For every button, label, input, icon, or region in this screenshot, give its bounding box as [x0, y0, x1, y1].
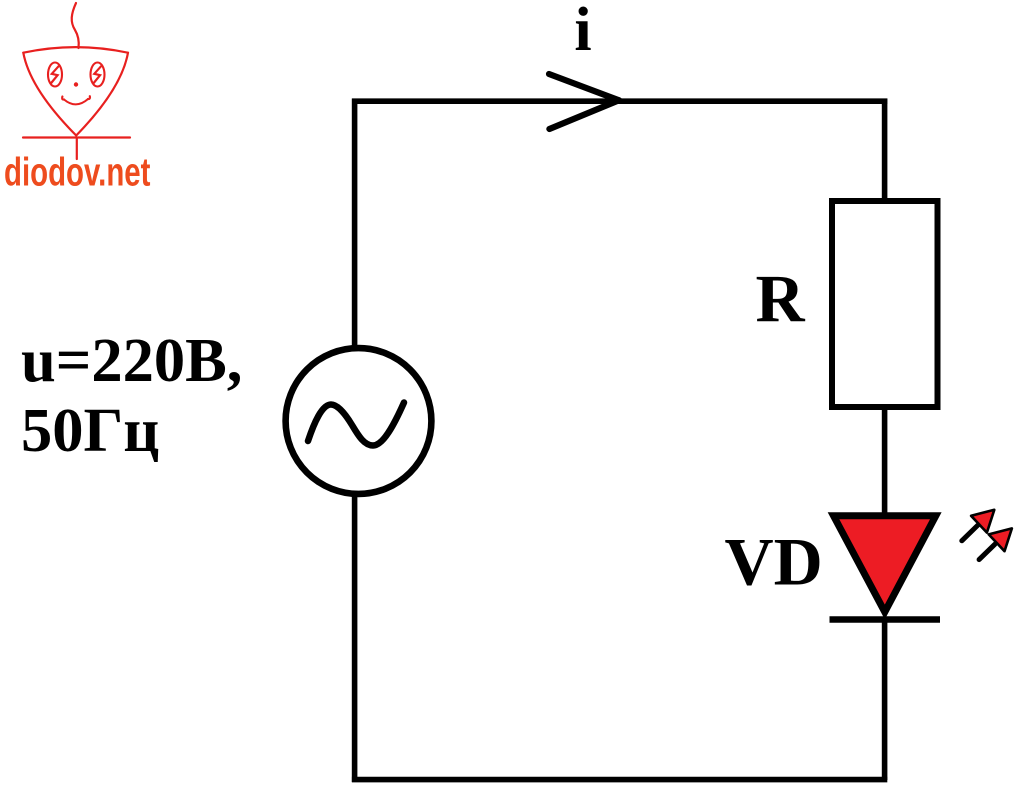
svg-text:i: i — [574, 0, 591, 64]
AC source circle — [286, 348, 432, 494]
wire: left lower (source bottom lead to bottom wire) — [352, 494, 358, 782]
logo mascot diode (diodov.net) — [23, 3, 130, 159]
wire: top (source to resistor) — [352, 98, 887, 104]
LED light emission arrow 1 — [962, 510, 995, 541]
current direction arrow — [549, 74, 619, 129]
wire: bottom return — [352, 777, 887, 783]
LED VD triangle (anode) — [834, 516, 936, 612]
svg-text:diodov.net: diodov.net — [4, 150, 151, 194]
wire: resistor to LED — [882, 407, 888, 516]
LED light emission arrow 2 — [979, 528, 1012, 559]
LED cathode bar — [830, 616, 941, 623]
wire: LED cathode to bottom wire — [882, 617, 888, 780]
wire: right upper (top wire to resistor) — [882, 99, 888, 203]
svg-text:50Гц: 50Гц — [21, 395, 159, 465]
wire: left upper (top wire down to source top lead) — [352, 99, 358, 348]
AC source sine wave — [308, 403, 404, 446]
svg-text:VD: VD — [725, 524, 823, 600]
svg-text:u=220В,: u=220В, — [21, 325, 242, 395]
svg-text:R: R — [756, 261, 806, 337]
resistor R body — [832, 201, 938, 407]
